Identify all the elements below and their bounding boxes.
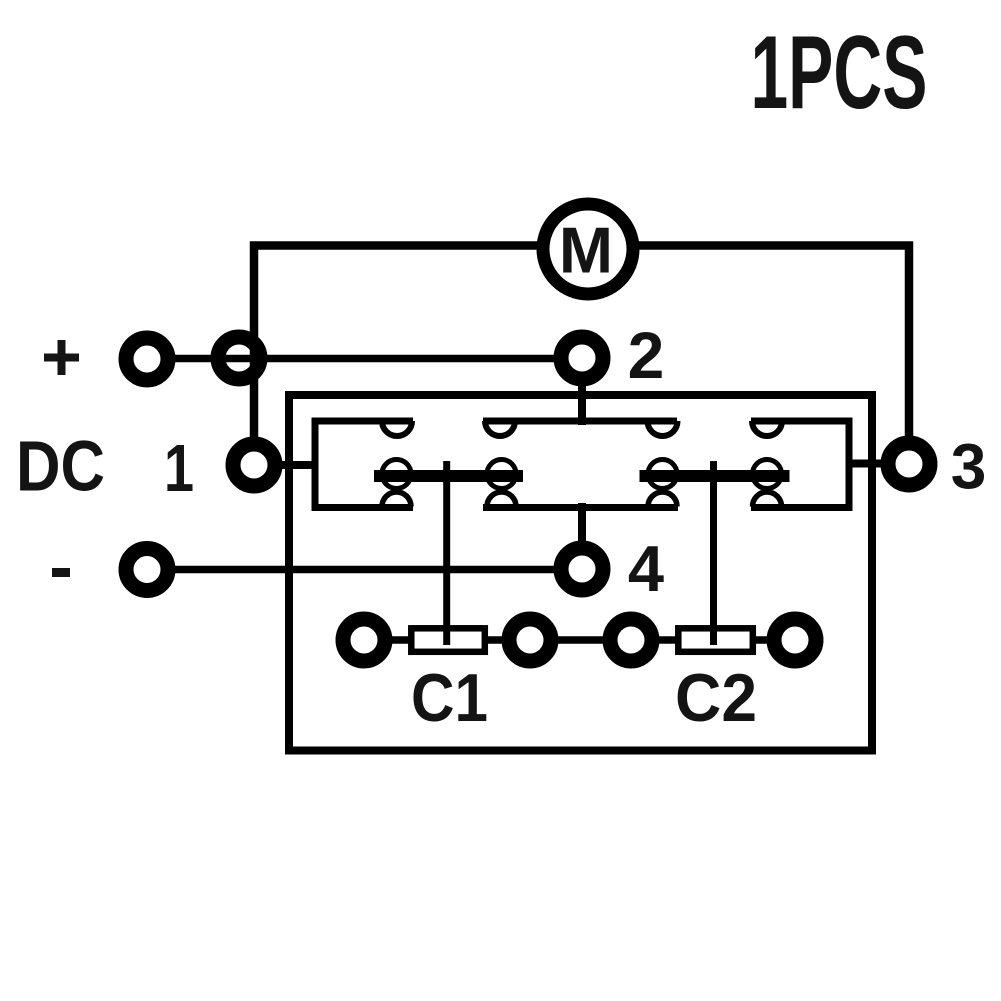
svg-text:4: 4 xyxy=(628,532,664,605)
svg-text:3: 3 xyxy=(951,431,987,503)
svg-text:C1: C1 xyxy=(411,660,488,736)
svg-text:1: 1 xyxy=(164,431,194,506)
svg-text:M: M xyxy=(559,214,613,287)
svg-text:C2: C2 xyxy=(675,660,757,736)
svg-text:1PCS: 1PCS xyxy=(751,15,928,131)
svg-text:DC: DC xyxy=(16,428,105,507)
svg-text:2: 2 xyxy=(628,318,665,392)
